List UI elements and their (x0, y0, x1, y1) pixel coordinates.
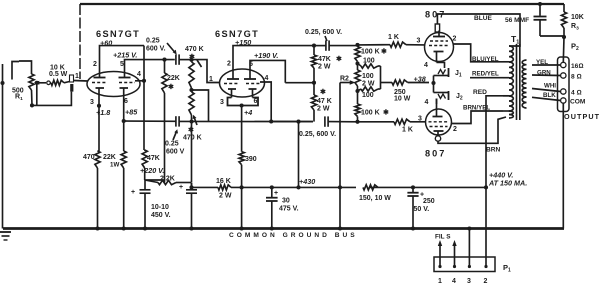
junction B+ riser (484, 185, 488, 189)
label 1K upper (388, 34, 399, 41)
tube 807-1 plate cap (435, 24, 439, 32)
svg-text:3: 3 (467, 278, 471, 285)
wire cathode bias node (431, 76, 435, 93)
label 807 bottom (425, 149, 446, 159)
label 470K lower (183, 115, 202, 142)
capacitor 250 50V (407, 185, 424, 228)
resistor 470K upper (189, 58, 194, 92)
pin label 2 (93, 61, 97, 68)
svg-text:2 W: 2 W (318, 64, 331, 71)
wire secondary GRN (532, 74, 561, 77)
terminal 4 ohm (561, 89, 566, 94)
pin label 6 (124, 98, 128, 105)
svg-text:R2: R2 (340, 76, 349, 83)
tube 807-2 envelope (426, 109, 452, 135)
tube V2 grid A (224, 83, 238, 85)
svg-text:22K: 22K (103, 154, 116, 161)
label 22K star (167, 75, 180, 91)
capacitor 0.25 600V lower mid (325, 116, 360, 126)
wire V2 cathode drop (241, 106, 243, 152)
label 2.2K (160, 176, 175, 183)
resistor 100K upper (355, 45, 360, 66)
svg-text:+38: +38 (414, 75, 426, 84)
wire divider mid tap (192, 90, 209, 122)
capacitor 0.25 600V upper mid (326, 40, 358, 50)
tube V1 grid A (92, 82, 107, 84)
label 100 upper (363, 58, 375, 65)
wire grid A jog (192, 60, 220, 83)
svg-text:22K: 22K (167, 75, 180, 82)
resistor R3 10K (561, 12, 566, 39)
svg-text:2: 2 (453, 126, 457, 133)
svg-text:2: 2 (93, 61, 97, 68)
label +150 (235, 38, 251, 47)
svg-text:16Ω: 16Ω (571, 63, 583, 70)
transformer core (517, 44, 520, 120)
svg-text:COM: COM (570, 99, 586, 106)
svg-text:47K: 47K (318, 56, 331, 63)
label +430 (299, 177, 315, 186)
common ground bus (3, 227, 564, 230)
tube V1 cathode B (120, 88, 129, 95)
tube V2 cathode A (228, 89, 236, 98)
input jack J-in (0, 62, 19, 86)
label YEL (536, 59, 548, 66)
label BLU/YEL (472, 56, 499, 63)
wire feedback left drop (dashed) (79, 4, 81, 79)
resistor 47K upper 2W (311, 46, 316, 85)
tube V2 envelope (220, 69, 265, 97)
svg-text:50 V.: 50 V. (414, 206, 430, 213)
svg-text:✱: ✱ (383, 109, 389, 117)
svg-text:GRN: GRN (537, 70, 551, 77)
junction 390 bottom (240, 185, 244, 189)
svg-text:450 V.: 450 V. (151, 212, 171, 219)
pin label 1 V2 (209, 76, 213, 83)
pin label 5 V2 (249, 61, 253, 68)
label 8 ohm (571, 74, 582, 81)
terminal circle (47, 81, 51, 85)
wire 807-1 plate to BLUE (437, 14, 520, 46)
svg-text:✱: ✱ (336, 55, 342, 63)
label 100K upper (361, 48, 387, 56)
pin label 2 V2 (227, 61, 231, 68)
pin label 4 807-2 (425, 99, 429, 106)
wire V2 plate B loop (250, 60, 285, 82)
wire +430 riser (296, 120, 300, 190)
label P1 (503, 263, 511, 274)
jack J2 (434, 91, 449, 104)
tube 807-2 cathode (433, 99, 443, 117)
resistor 470 cathode (95, 151, 100, 229)
svg-text:6: 6 (254, 98, 258, 105)
wire +220 node (145, 179, 165, 181)
jack J1 (434, 62, 449, 77)
wire 47K mid (285, 82, 314, 84)
svg-text:BLUE: BLUE (474, 15, 493, 22)
tube V1 grid B (119, 82, 135, 84)
label 10-10 450V (151, 204, 171, 219)
svg-text:6: 6 (124, 98, 128, 105)
pin label 3 807-1 (417, 38, 421, 45)
label WHI (544, 83, 556, 90)
svg-text:475 V.: 475 V. (279, 206, 299, 213)
wire primary taps (503, 62, 509, 111)
svg-text:4: 4 (452, 278, 456, 285)
svg-text:2 W: 2 W (219, 193, 232, 200)
wire 807-1 screen out (454, 44, 504, 62)
label +440V AT 150MA (488, 171, 527, 188)
resistor 22K stage B load (162, 60, 167, 180)
svg-text:390: 390 (245, 156, 257, 163)
svg-text:10 W: 10 W (394, 96, 411, 103)
resistor 250 10W (392, 80, 429, 85)
svg-text:470 K: 470 K (183, 135, 202, 142)
svg-text:0.25, 600 V.: 0.25, 600 V. (305, 29, 342, 36)
svg-text:30: 30 (282, 198, 290, 205)
svg-text:3: 3 (90, 99, 94, 106)
resistor 47K stage A load (142, 150, 147, 180)
label 16 ohm (571, 63, 583, 70)
junction dots ground bus (95, 226, 415, 230)
pin label 5 (120, 61, 124, 68)
transformer primary winding (509, 46, 513, 118)
svg-text:+: + (131, 189, 135, 196)
label 390 (245, 156, 257, 163)
svg-text:0.25: 0.25 (165, 141, 179, 148)
svg-text:2.2K: 2.2K (160, 176, 175, 183)
terminal COM (561, 98, 566, 103)
potentiometer R1 (29, 74, 46, 90)
tube 807-2 grid (429, 121, 449, 123)
svg-text:250: 250 (423, 198, 435, 205)
label 0.25 600V top (146, 38, 177, 55)
label J2 (456, 93, 463, 102)
wire +430 line (192, 186, 487, 188)
svg-text:4 Ω: 4 Ω (571, 90, 582, 97)
wire bias bus mid (179, 120, 313, 122)
label COMMON GROUND BUS (229, 232, 358, 239)
wire box to tube pin 1 (74, 80, 88, 83)
resistor 100 lower (358, 87, 381, 91)
pin label 6 V2 (254, 98, 258, 105)
svg-text:+: + (179, 184, 183, 191)
svg-text:1 K: 1 K (388, 34, 399, 41)
label 100 2W mid (362, 73, 375, 88)
label 470 (83, 154, 95, 161)
svg-text:+190 V.: +190 V. (254, 51, 278, 60)
label R2 (340, 76, 349, 83)
tube V2 plate A (227, 71, 239, 80)
pin label 1 (75, 73, 79, 80)
label +85 (125, 108, 138, 117)
resistor 150 10W (363, 185, 378, 190)
label +1.8 (96, 108, 110, 117)
label BLK (543, 92, 556, 99)
svg-text:3: 3 (418, 116, 422, 123)
capacitor 10-10 450V first (131, 180, 151, 229)
svg-text:2: 2 (484, 278, 488, 285)
wire pot bottom (30, 83, 71, 108)
wire V2 grid B entry (260, 82, 273, 124)
label T1 (511, 34, 519, 46)
label 100K lower (361, 109, 389, 117)
svg-text:100: 100 (362, 92, 374, 99)
label +220 V (140, 166, 164, 175)
tube 807-1 cathode (434, 52, 444, 63)
svg-text:470: 470 (83, 154, 95, 161)
label 6SN7GT second (215, 29, 259, 39)
svg-text:600 V: 600 V (166, 149, 185, 156)
ground symbol (0, 232, 11, 240)
svg-text:BLU/YEL: BLU/YEL (472, 56, 499, 63)
resistor 100K lower (355, 91, 360, 122)
wire grid stopper to box (64, 82, 70, 83)
svg-text:5: 5 (120, 61, 124, 68)
svg-text:1W: 1W (110, 162, 119, 169)
label COM (570, 99, 586, 106)
resistor 10K 0.5W (50, 80, 64, 85)
wire R3 to 16ohm tap (562, 37, 565, 62)
resistor 2.2K (145, 180, 192, 185)
label 10K R3 (571, 14, 584, 32)
svg-text:56 MMF: 56 MMF (505, 17, 529, 24)
capacitor 0.25 600V top (176, 54, 192, 64)
resistor 47K lower 2W (311, 83, 316, 122)
svg-text:AT 150 MA.: AT 150 MA. (488, 178, 527, 187)
tube 807-2 plate cap (435, 136, 440, 141)
label +4 (244, 108, 252, 117)
wire COM ground drop (562, 103, 564, 228)
svg-text:+430: +430 (299, 177, 315, 186)
resistor 470K lower (189, 92, 194, 122)
wire splitter top run (312, 44, 326, 48)
label 807 top (425, 10, 446, 20)
svg-text:3: 3 (220, 99, 224, 106)
svg-text:10-10: 10-10 (151, 204, 169, 211)
svg-text:YEL: YEL (536, 59, 548, 66)
label 47K (147, 155, 160, 162)
pin label 4 807-1 (424, 62, 428, 69)
wire V2 plate A feed (233, 46, 314, 71)
terminal strip P2 (558, 57, 570, 112)
svg-text:+: + (274, 190, 278, 197)
label 0.25 600V lower-left (165, 129, 185, 155)
svg-text:4: 4 (424, 62, 428, 69)
label P1 pin numbers (438, 278, 488, 285)
svg-text:OUTPUT: OUTPUT (564, 112, 600, 121)
label 22K 1W (103, 154, 119, 169)
label +215 V (113, 51, 137, 60)
wire bias bus left (124, 120, 176, 122)
svg-text:✱: ✱ (381, 48, 387, 56)
svg-text:4: 4 (137, 71, 141, 78)
wire V1 plate A to coupling (100, 46, 145, 66)
pin label 2 807-2 (453, 126, 457, 133)
svg-text:6SN7GT: 6SN7GT (96, 29, 140, 39)
svg-text:100 K: 100 K (361, 110, 380, 117)
label 10K 0.5W (49, 65, 68, 79)
wire feedback top line (80, 3, 564, 5)
svg-text:+220 V.: +220 V. (140, 166, 164, 175)
transformer secondary winding (522, 60, 526, 108)
svg-text:RED/YEL: RED/YEL (472, 71, 499, 78)
P1 pin ticks (438, 257, 487, 268)
shield box on grid wire (70, 75, 74, 92)
label BRN (486, 147, 501, 154)
svg-text:WHI: WHI (544, 83, 556, 90)
tube 807-2 plate (434, 131, 444, 136)
svg-text:FIL S: FIL S (435, 234, 451, 241)
resistor 1K lower (358, 119, 426, 124)
wire grid B tap (135, 79, 146, 83)
svg-text:2: 2 (227, 61, 231, 68)
wire 807-2 plate BRN (438, 117, 506, 143)
wire RED B+ lead (486, 96, 509, 188)
label BRN/YEL (463, 105, 490, 112)
wire V1 plate B run (125, 58, 175, 66)
svg-text:RED: RED (473, 89, 487, 96)
svg-text:10K: 10K (571, 14, 584, 21)
resistor 22K 1W (121, 151, 126, 229)
tube V2 grid B (246, 83, 260, 85)
svg-text:1 K: 1 K (402, 127, 413, 134)
wire 807-2 screen out (452, 111, 504, 124)
label R1 value (12, 88, 24, 103)
label 47K lower (317, 88, 332, 113)
svg-text:3: 3 (417, 38, 421, 45)
svg-text:0.25: 0.25 (146, 38, 160, 45)
wire FIL pin4 (452, 240, 456, 257)
capacitor 10-10 450V second (179, 183, 197, 229)
svg-text:100: 100 (363, 58, 375, 65)
svg-text:4: 4 (265, 75, 269, 82)
tube V1 cathode A (96, 88, 105, 95)
label FILS (435, 234, 451, 241)
label OUTPUT (564, 112, 600, 121)
label RED (473, 89, 487, 96)
tube V1 plate B (119, 66, 131, 78)
tube 807-2 screen (430, 126, 448, 128)
junction splitter top (355, 43, 359, 47)
svg-text:2 W: 2 W (362, 81, 375, 88)
wire jack to pot (19, 61, 32, 74)
wire 470K-bottom drop (189, 122, 193, 190)
wire feedback corner (563, 4, 565, 12)
svg-text:0.25, 600 V.: 0.25, 600 V. (299, 131, 336, 138)
wire secondary BLK (532, 97, 561, 100)
wire input shield drop (2, 64, 4, 229)
tube 807-1 screen (430, 40, 448, 42)
label +60 (100, 39, 112, 48)
capacitor 56 MMF (534, 2, 565, 36)
wire secondary WHI (532, 89, 561, 92)
pin label 3 (90, 99, 94, 106)
label J1 (455, 70, 462, 79)
svg-text:100: 100 (362, 73, 374, 80)
label 16K 2W (216, 178, 232, 200)
pin label 3 V2 (220, 99, 224, 106)
tube V2 plate B (244, 71, 256, 80)
resistor 100 upper (358, 64, 381, 69)
resistor 1K upper (358, 42, 425, 47)
connector P1 box (434, 257, 495, 272)
capacitor 30 475V (266, 185, 278, 228)
resistor 390 (239, 152, 244, 231)
svg-text:470 K: 470 K (185, 46, 204, 53)
svg-text:0.5 W: 0.5 W (49, 71, 68, 78)
label 4 ohm (571, 90, 582, 97)
svg-text:600 V.: 600 V. (146, 46, 166, 53)
svg-text:16 K: 16 K (216, 178, 231, 185)
resistor 16K 2W (218, 185, 231, 190)
label 56 MMF (505, 17, 529, 24)
wire V1 cathode B (122, 95, 126, 151)
tube V1 plate A (94, 66, 106, 78)
svg-text:✱: ✱ (168, 83, 174, 91)
label 30 475V (279, 198, 299, 213)
label 0.25 600V lower mid (299, 131, 336, 138)
tube 807-1 plate (433, 31, 445, 37)
label RED/YEL (472, 71, 499, 78)
potentiometer R2 100 2W (340, 64, 360, 94)
svg-text:8 Ω: 8 Ω (571, 74, 582, 81)
label 47K upper (318, 55, 342, 71)
svg-text:BRN: BRN (486, 147, 501, 154)
wire FIL pin1 (438, 240, 442, 257)
wire R2 wiper to ground (338, 83, 342, 231)
pin label 3 807-2 (418, 116, 422, 123)
wire loop right side (381, 66, 393, 89)
label 470K upper (185, 46, 204, 67)
tube V1 envelope (87, 72, 140, 97)
svg-text:+1.8: +1.8 (96, 108, 110, 117)
label +38 (414, 75, 426, 84)
svg-text:807: 807 (425, 149, 446, 159)
wire V1 cathode A (97, 95, 101, 151)
label 250 50V (414, 198, 435, 213)
svg-text:COMMON GROUND BUS: COMMON GROUND BUS (229, 232, 358, 239)
label GRN (537, 70, 551, 77)
svg-text:1: 1 (438, 278, 442, 285)
svg-text:47K: 47K (147, 155, 160, 162)
svg-text:+4: +4 (244, 108, 252, 117)
capacitor 0.25 600V lower-left (176, 116, 194, 126)
pin label 2 807-1 (453, 36, 457, 43)
label 100 lower (362, 92, 374, 99)
svg-text:4: 4 (425, 99, 429, 106)
wire RED/YEL stub (470, 77, 503, 79)
wire P1 pin2 B+ (485, 187, 487, 257)
svg-text:150, 10 W: 150, 10 W (359, 195, 391, 202)
label P2 (571, 42, 579, 53)
wire bias bus right (271, 121, 313, 123)
wire direct coupling drop x144 (143, 46, 145, 150)
svg-text:1: 1 (75, 73, 79, 80)
label 1K lower (402, 127, 413, 134)
svg-text:2 W: 2 W (317, 106, 330, 113)
wire secondary YEL (532, 64, 561, 66)
pin label 4 V2 (265, 75, 269, 82)
label BLUE (474, 15, 493, 22)
svg-text:+215 V.: +215 V. (113, 51, 137, 60)
wire P1 pin3 ground (467, 226, 471, 257)
label 250 10W (394, 89, 411, 103)
svg-text:47 K: 47 K (317, 98, 332, 105)
svg-text:+85: +85 (125, 108, 138, 117)
tube V2 cathode B (249, 89, 257, 98)
svg-text:✱: ✱ (320, 88, 326, 96)
